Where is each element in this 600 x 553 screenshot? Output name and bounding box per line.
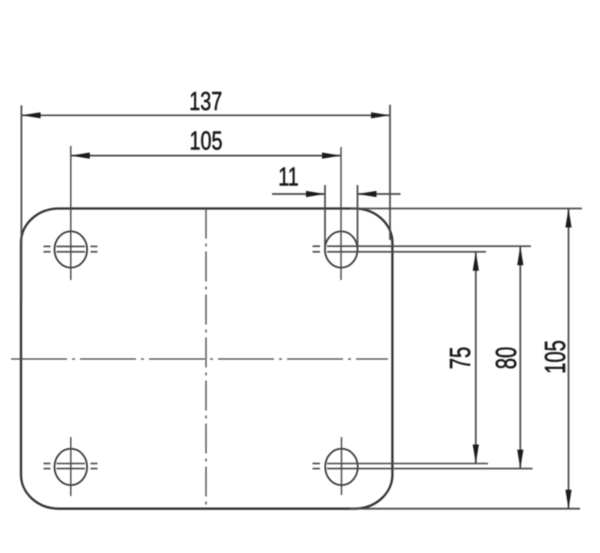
svg-text:11: 11 (278, 162, 299, 191)
svg-text:80: 80 (491, 347, 523, 370)
svg-text:105: 105 (190, 126, 223, 155)
svg-text:75: 75 (445, 347, 477, 370)
svg-text:137: 137 (189, 86, 222, 115)
svg-text:105: 105 (540, 340, 572, 374)
